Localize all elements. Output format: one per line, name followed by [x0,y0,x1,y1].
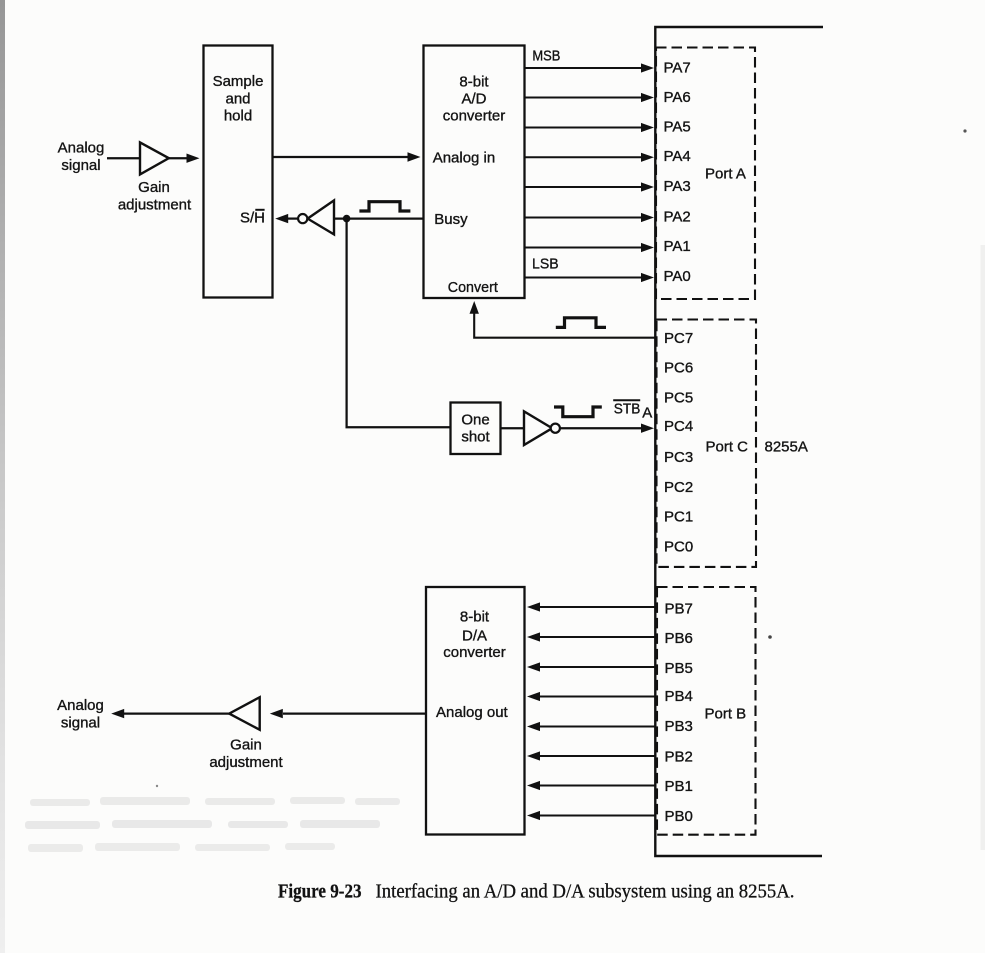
svg-text:PC5: PC5 [664,389,693,406]
left page-edge shading [0,0,5,953]
svg-text:PC0: PC0 [664,538,693,555]
speck artifact (right of port B) [768,635,772,639]
svg-text:Analog: Analog [58,140,105,157]
inverter U2: one-shot to PC4 [524,411,560,445]
svg-text:8-bit: 8-bit [460,609,490,626]
wire with arrow: A/D bit 3 to PA3 [526,182,655,191]
speck artifact (left mid) [156,785,158,787]
speck artifact (top right) [963,129,966,132]
wire with arrow: gain amp to analog signal output [111,709,229,718]
wire with arrow: PB4 to D/A bit 4 [527,692,656,701]
svg-text:LSB: LSB [532,255,559,272]
svg-text:signal: signal [61,157,100,174]
wire with arrow: A/D bit 4 to PA4 [526,153,655,162]
wire with arrow: PC7 to Convert input [470,301,656,338]
svg-text:PB4: PB4 [665,688,693,705]
svg-text:PA0: PA0 [664,268,691,285]
svg-text:PB0: PB0 [665,808,693,825]
block: 8-bit D/A converter [426,587,525,835]
wire with arrow: A/D bit 6 to PA6 [526,93,655,102]
wire with arrow: PB2 to D/A bit 2 [527,751,656,760]
wire with arrow: PB1 to D/A bit 1 [527,781,656,790]
svg-text:shot: shot [461,429,490,446]
svg-text:hold: hold [224,107,252,124]
svg-text:PB3: PB3 [665,718,693,735]
port B dashed box [657,587,756,835]
svg-text:PC1: PC1 [664,509,693,526]
wire with arrow: PB5 to D/A bit 5 [527,662,656,671]
svg-text:PB6: PB6 [665,630,693,647]
wire: Busy output to inverter U1 [335,217,424,219]
svg-text:PC2: PC2 [664,479,693,496]
inverter U1: busy to S/H-bar [298,200,334,234]
svg-text:MSB: MSB [532,47,560,64]
op-amp: input gain adjustment amplifier [140,142,169,174]
svg-text:Figure 9-23: Figure 9-23 [278,881,362,902]
svg-text:A/D: A/D [461,90,486,107]
wire with arrow: A/D bit 2 to PA2 [526,213,655,222]
chip: 8255A outline (open right side) [655,27,823,856]
svg-text:converter: converter [443,107,506,124]
right page-edge shading [981,245,985,850]
svg-text:PC3: PC3 [664,449,693,466]
wire with arrow: A/D bit 1 to PA1 [526,243,655,252]
svg-text:D/A: D/A [462,627,487,644]
svg-text:signal: signal [61,714,100,731]
svg-text:8255A: 8255A [765,439,808,456]
svg-text:PA5: PA5 [664,119,691,136]
wire: one-shot output to inverter U2 [501,427,525,429]
wire: analog signal input to gain amp [107,157,140,159]
block: 8-bit A/D converter [424,46,525,299]
wire with arrow: gain amp to sample-and-hold input [169,154,200,163]
svg-text:S/H: S/H [240,210,265,227]
svg-text:Port B: Port B [705,706,747,723]
svg-text:PA7: PA7 [664,60,691,77]
port C dashed box [657,320,757,567]
junction node on busy wire [343,215,351,223]
svg-text:Interfacing an A/D and D/A sub: Interfacing an A/D and D/A subsystem usi… [376,881,795,902]
svg-text:Analog out: Analog out [436,704,509,721]
svg-text:A: A [642,404,652,421]
pulse waveform above busy wire [359,202,410,211]
wire with arrow: PB6 to D/A bit 6 [527,632,656,641]
svg-text:Gain: Gain [138,179,170,196]
svg-text:PB5: PB5 [665,660,693,677]
svg-text:PA6: PA6 [664,89,691,106]
svg-text:One: One [461,411,489,428]
op-amp: output gain adjustment amplifier [229,697,260,730]
svg-text:PA2: PA2 [664,208,691,225]
svg-text:STB: STB [614,401,641,418]
wire with arrow: D/A analog out to gain amp [270,709,426,718]
svg-text:PB2: PB2 [665,749,693,766]
svg-text:Busy: Busy [434,211,468,228]
wire with arrow: inverter U2 output to PC4 [560,424,654,433]
svg-text:PB7: PB7 [665,601,693,618]
wire with arrow: PB3 to D/A bit 3 [527,722,656,731]
svg-text:adjustment: adjustment [209,754,283,771]
label: Gain adjustment (output) [209,736,283,770]
svg-text:Sample: Sample [213,73,264,90]
svg-text:adjustment: adjustment [118,196,192,213]
ghost show-through text row 2 [25,820,380,829]
label: Gain adjustment (input) [118,179,192,214]
wire with arrow: sample-and-hold output to A/D analog in [273,152,421,161]
wire with arrow: A/D bit 7 to PA7 [526,63,655,72]
svg-text:8-bit: 8-bit [459,73,489,90]
pin label: S/H-bar (sample/hold control) [240,210,265,227]
svg-text:PC6: PC6 [664,360,693,377]
pulse waveform above PC7 wire [556,318,606,328]
svg-text:PC7: PC7 [664,330,693,347]
svg-text:and: and [225,91,250,108]
pulse waveform (negative-going strobe) above PC4 wire [554,407,602,417]
wire with arrow: PB7 to D/A bit 7 [527,602,656,611]
block: Sample and hold [204,46,273,298]
wire with arrow: A/D bit 0 to PA0 [526,273,655,282]
wire with arrow: A/D bit 5 to PA5 [526,123,655,132]
svg-text:PB1: PB1 [665,778,693,795]
port A dashed box [656,48,755,300]
svg-text:Gain: Gain [230,736,262,753]
wire with arrow: inverter U1 output to S/H-bar input [275,214,298,223]
svg-text:PA1: PA1 [664,238,691,255]
svg-text:Convert: Convert [448,279,499,296]
label: Analog signal (input) [58,140,105,175]
ghost show-through text row 3 [28,843,335,852]
ghost show-through text row 1 [30,797,400,806]
svg-text:PC4: PC4 [664,418,693,435]
svg-text:Port C: Port C [706,439,749,456]
svg-text:Analog: Analog [57,697,104,714]
svg-text:PA3: PA3 [664,178,691,195]
wire: busy junction down and across to one-shot input [347,219,450,428]
svg-text:converter: converter [443,644,506,661]
svg-text:Analog in: Analog in [433,149,496,166]
label: Analog signal (output) [57,697,104,731]
wire with arrow: PB0 to D/A bit 0 [527,811,656,820]
block: One shot [451,403,501,455]
label: STB-A with overbar [613,400,652,421]
svg-text:Port A: Port A [705,165,746,182]
svg-text:PA4: PA4 [664,148,691,165]
